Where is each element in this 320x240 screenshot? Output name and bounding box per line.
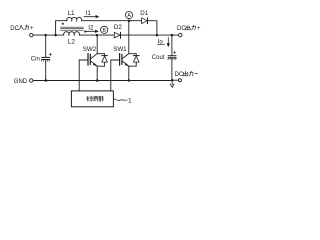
wire L1 to node A	[82, 20, 128, 22]
arrow current I1	[84, 16, 98, 18]
terminal DC output -	[178, 79, 181, 82]
terminal GND	[30, 79, 33, 82]
svg-text:1: 1	[128, 98, 132, 105]
node B balloon	[101, 26, 108, 33]
wire input to junction	[33, 34, 45, 36]
controller box U1	[71, 91, 113, 107]
svg-text:D2: D2	[114, 24, 122, 31]
core of coupled inductor	[61, 27, 84, 30]
inductor L1	[67, 17, 82, 20]
node junction D1 branch	[156, 34, 159, 37]
svg-text:+: +	[30, 26, 34, 32]
svg-text:SW2: SW2	[83, 46, 97, 53]
wire junction to inductor	[47, 34, 64, 36]
node junction SW2 emitter	[96, 79, 99, 82]
svg-text:Io: Io	[158, 39, 164, 46]
arrow ground reference below Cout junction	[170, 81, 174, 87]
diode D1	[142, 18, 148, 24]
bottom rail wire	[46, 80, 171, 82]
svg-text:DC: DC	[10, 26, 19, 32]
diode D2	[114, 32, 120, 38]
node A junction dot	[128, 19, 131, 22]
wire GND to rail	[33, 80, 45, 82]
svg-text:L2: L2	[68, 39, 76, 46]
svg-text:I2: I2	[88, 25, 94, 32]
polarity dot L2	[84, 31, 86, 33]
svg-text:L1: L1	[68, 10, 76, 17]
wire SW2 gate to controller	[78, 60, 80, 91]
svg-text:GND: GND	[14, 79, 28, 85]
terminal DC output +	[179, 33, 182, 36]
svg-text:D1: D1	[140, 10, 148, 17]
wire SW1 gate to controller	[110, 60, 112, 91]
label DC output plus	[177, 25, 201, 32]
node junction SW2 collector	[96, 34, 99, 37]
svg-text:I1: I1	[86, 10, 92, 17]
wire L2 to node B and D2	[79, 34, 114, 36]
svg-text:SW1: SW1	[113, 46, 127, 53]
transistor SW2	[79, 36, 107, 79]
node junction Cout top	[171, 34, 174, 37]
wire D2 to output terminal	[121, 34, 179, 36]
transistor SW1	[111, 22, 139, 80]
svg-text:DC: DC	[177, 26, 186, 32]
svg-text:DC: DC	[175, 72, 184, 78]
node junction SW1 emitter	[128, 79, 131, 82]
svg-text:+: +	[197, 26, 201, 32]
leader line to label 1	[114, 99, 128, 101]
wire node A to D1	[130, 20, 142, 22]
label DC output minus	[175, 71, 198, 78]
label controller text seigyobu	[86, 96, 103, 101]
svg-text:Cin: Cin	[31, 56, 40, 62]
node junction input/Cin	[44, 34, 47, 37]
terminal DC input +	[30, 33, 33, 36]
label DC input plus	[10, 25, 34, 32]
node junction Cout bottom	[171, 79, 174, 82]
capacitor Cout	[171, 35, 173, 55]
svg-text:Cout: Cout	[152, 55, 165, 61]
node junction Cin bottom	[45, 79, 48, 82]
polarity dot L1	[62, 23, 64, 25]
node junction L1 bracket	[54, 34, 57, 37]
wire L1 left bracket	[56, 21, 67, 35]
capacitor Cin	[45, 35, 47, 57]
arrow current Io	[167, 38, 169, 47]
wire stub to output minus terminal	[173, 79, 178, 81]
wire D1 to output corner	[148, 21, 157, 34]
node A balloon	[125, 12, 132, 19]
arrow current I2	[85, 30, 98, 32]
inductor L2	[64, 32, 80, 35]
